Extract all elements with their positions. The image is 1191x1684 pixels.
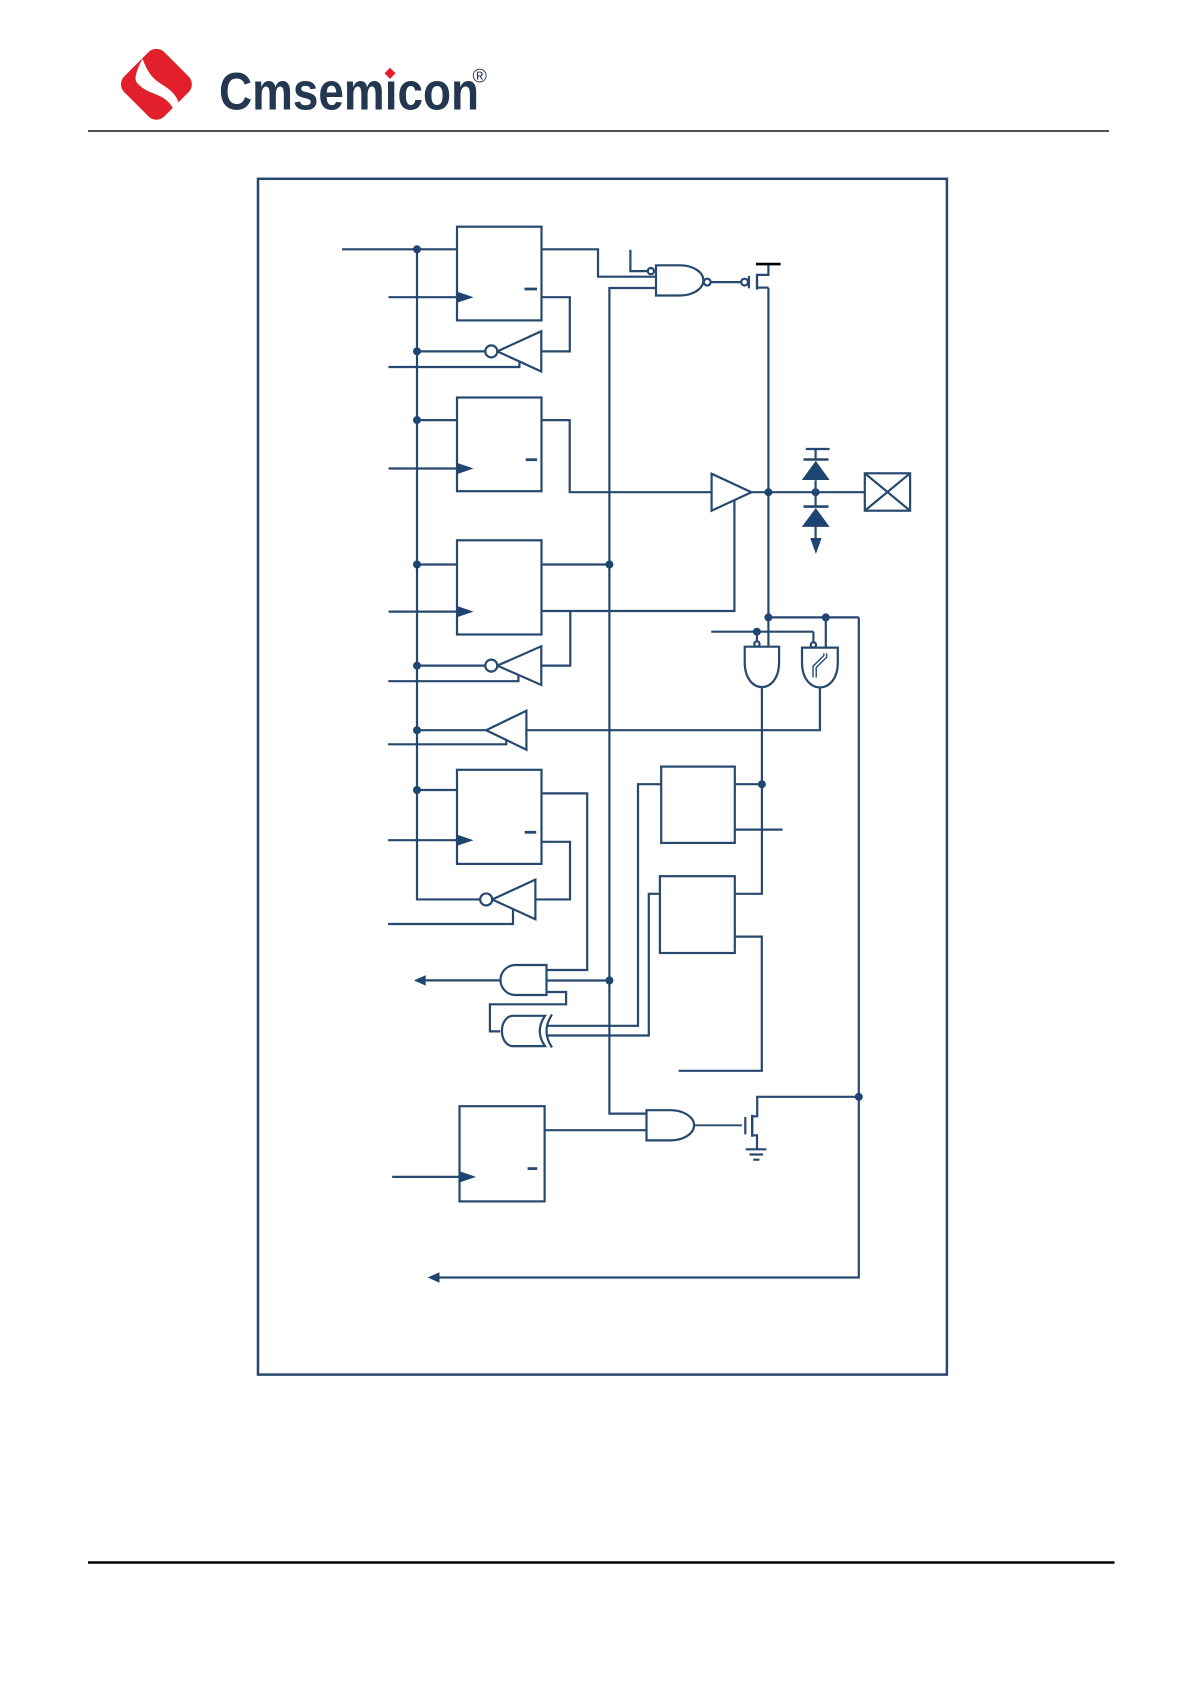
VDD tee above diode D1 <box>806 449 830 460</box>
wire: R4 data input from bus <box>417 789 457 791</box>
wire: R4 output 1 to read AND input 1 <box>542 793 588 970</box>
AND G6 body <box>647 1110 695 1140</box>
R2 Qbar dash <box>526 458 537 461</box>
register R7 <box>460 1106 545 1201</box>
wire: NMOS source lead to ground <box>752 1135 757 1149</box>
node: internal bus/read AND input <box>605 977 613 985</box>
logo red diamond <box>116 44 196 124</box>
I/O pad box <box>865 473 910 510</box>
wire: R4 clock stub <box>388 839 457 841</box>
junction dots on left bus <box>413 245 613 984</box>
wire: PMOS drain lead <box>757 287 768 289</box>
wire: R3 output 2 to output buffer enable <box>542 500 735 611</box>
register R3 (port latch) <box>457 540 542 634</box>
register R4 <box>457 770 542 864</box>
node: pad net at buffer output <box>764 488 772 496</box>
G3 hysteresis symbol <box>813 653 827 677</box>
NAND G1 output bubble <box>704 279 711 286</box>
wire: R6 lower output down and left (open stub) <box>679 937 762 1071</box>
wire: R1 data input <box>342 248 457 250</box>
AND G2 inverted input bubble <box>754 641 759 646</box>
register R2 (TRIS latch) <box>457 398 542 492</box>
node: pad vertical / horizontal <box>764 613 772 621</box>
wire: pad net vertical <box>767 288 769 647</box>
wire: U4 enable stub <box>388 740 506 744</box>
wire: R2 clock stub <box>389 467 458 469</box>
wire: U1 enable stub <box>389 362 520 367</box>
tri-state inverter U1 body <box>497 331 541 371</box>
node: bus/U4 output <box>413 726 421 734</box>
wire: stub down to G2 bubble <box>756 632 758 642</box>
AND G2 gate body (pointing down) <box>745 647 779 687</box>
input buffer U4 (open triangle) <box>486 711 526 750</box>
diode D2 cathode bar <box>804 505 829 508</box>
node: bus/R2 input <box>413 416 421 424</box>
VSS arrow below D2 <box>810 538 821 554</box>
wire: R2 data input from bus <box>417 419 457 421</box>
svg-text:®: ® <box>473 66 488 88</box>
wire: U1 output to bus <box>417 350 486 352</box>
XOR G5 body (pointing left) <box>502 1016 545 1046</box>
wire: G6 output to NMOS gate <box>694 1124 742 1126</box>
PMOS Q1 gate bubble <box>741 279 748 286</box>
wire: data bus vertical (left) with corner to U3 output <box>417 249 480 899</box>
wire: G3 input 2 from pad node <box>825 617 827 647</box>
PMOS Q1 channel bar <box>756 274 758 290</box>
read AND G4 body (pointing left) <box>501 965 547 995</box>
wire: G4 input 2 from internal bus <box>547 979 610 981</box>
wire: R1 feedback to U1 input <box>541 297 570 351</box>
wire: diode chain vertical <box>814 480 816 538</box>
U3 output bubble <box>480 893 492 905</box>
wire: enable stub line above AND G2 <box>711 631 813 633</box>
header rule <box>88 130 1109 132</box>
U1 output bubble <box>485 345 497 357</box>
wire: U2 enable stub <box>388 675 518 681</box>
PMOS Q1 gate bar <box>748 276 750 288</box>
arrow: bottom read line to data bus <box>428 1272 440 1282</box>
logo white S swoosh <box>135 59 178 117</box>
NAND gate G1 body <box>656 265 703 295</box>
wire: NMOS drain lead to right rail <box>752 1097 859 1117</box>
node: bus/U2 output <box>413 662 421 670</box>
R3 clock arrow <box>457 606 474 617</box>
pad box X diagonals <box>865 473 910 510</box>
wire: branch to U2 input <box>541 611 570 666</box>
node: bus/R1 input <box>413 245 421 253</box>
wire: right rail vertical down to bottom arrow line <box>439 617 859 1277</box>
output buffer U5 triangle <box>712 474 752 511</box>
XOR G5 outer input arc <box>547 1015 553 1048</box>
footer rule <box>88 1561 1115 1564</box>
VDD bar (black) <box>756 263 781 266</box>
node: internal bus/R3 output <box>605 561 613 569</box>
R2 clock arrow <box>457 463 474 474</box>
wire: NAND input 1 stub <box>630 250 647 271</box>
wire: stub down to G3 bubble <box>812 632 814 643</box>
NMOS Q2 channel bar <box>751 1115 753 1137</box>
wire: R3 data input from bus <box>417 563 457 565</box>
R4 Qbar dash <box>525 831 537 834</box>
wire: NAND output to PMOS gate <box>711 281 742 283</box>
diode D1 body <box>802 461 830 480</box>
node: G2 output / R5 output <box>758 780 766 788</box>
R1 Qbar dash <box>525 288 538 291</box>
node: bus/U1 output <box>413 347 421 355</box>
wire: internal bus vertical (TRIS line) from NAND input down to bottom AND <box>609 288 656 1114</box>
wire: R7 clock stub <box>392 1176 459 1178</box>
wire: PMOS source lead to VDD <box>757 264 768 275</box>
schematic frame <box>258 179 947 1375</box>
wire: U2 output to bus <box>417 665 486 667</box>
diode D2 body <box>802 508 830 527</box>
U2 output bubble <box>485 660 497 672</box>
wire: U4 output to bus <box>417 729 486 731</box>
diode D1 cathode bar <box>804 458 829 461</box>
NAND G1 input bubble <box>648 268 654 274</box>
node: bus/R3 input <box>413 561 421 569</box>
wire: R5 left input down to XOR input 1 <box>548 784 661 1026</box>
wire: R1 output to NAND input 2 <box>542 249 657 276</box>
wire: G3 output down and left to U4 input <box>526 687 820 730</box>
tri-state inverter U3 body <box>492 880 535 920</box>
node: bus/R4 input <box>413 786 421 794</box>
node: stub / G2 bubble branch <box>753 628 761 636</box>
wire: R4 output 2 to U3 input <box>535 842 570 900</box>
wire: pad node horizontal to right rail <box>768 616 858 618</box>
wire: U3 enable stub <box>388 909 513 924</box>
schmitt trigger G3 inverted input bubble <box>811 642 816 647</box>
wire: R2 output to output buffer input <box>542 420 712 492</box>
wire: U5 output to pad <box>751 491 864 493</box>
node: right rail / NMOS drain <box>855 1093 863 1101</box>
svg-text:Cmsemıcon: Cmsemıcon <box>219 63 479 122</box>
wire: G4 output with arrow to data bus <box>426 979 501 981</box>
register R5 <box>661 767 735 843</box>
schmitt AND G3 body (pointing down) <box>802 648 838 688</box>
R7 Qbar dash <box>528 1167 538 1170</box>
R7 clock arrow <box>460 1171 477 1182</box>
node: schmitt input branch <box>822 613 830 621</box>
wire: R5 right stub <box>735 828 783 830</box>
ground symbol <box>746 1149 767 1159</box>
register R6 <box>660 876 735 953</box>
wire: G2 output down to R5 output node <box>735 688 762 894</box>
NMOS Q2 gate bar <box>744 1117 746 1134</box>
wire: G4 input 3 from XOR output <box>490 992 566 1031</box>
wire: R3 clock stub <box>389 610 458 612</box>
R1 clock arrow <box>457 292 474 303</box>
wire: R7 output to AND G6 input 2 <box>545 1129 647 1131</box>
wire: R1 clock stub <box>389 296 458 298</box>
logo i-dot red diamond <box>384 68 395 79</box>
wire: R3 output to internal bus <box>542 563 610 565</box>
tri-state inverter U2 body <box>497 646 541 685</box>
arrow: G4 output <box>414 975 426 985</box>
wire: R6 left input down to XOR input 2 <box>548 894 660 1036</box>
R4 clock arrow <box>457 835 474 846</box>
register R1 (data latch) <box>457 227 542 321</box>
node: pad net at diode chain <box>812 488 820 496</box>
wire: R5 output to G2 output node <box>735 783 762 785</box>
